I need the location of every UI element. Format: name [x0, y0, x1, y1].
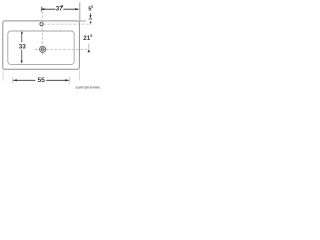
drain centerline right dashed: [46, 48, 90, 50]
dimension 5.3 upper arrow: [89, 15, 91, 18]
dimension 5.3 lower arrow: [90, 22, 92, 25]
extension of rear edge to right: [79, 20, 86, 22]
inner bowl outline: [8, 31, 74, 64]
drain centerline left dash: [35, 48, 38, 50]
svg-text:3: 3: [91, 5, 93, 9]
dimension 21.5 line: [88, 44, 90, 49]
svg-text:33: 33: [19, 44, 27, 51]
tap hole centerline vertical dashed: [41, 7, 43, 46]
dimension 37.5 right arrow: [75, 8, 79, 10]
extension line right edge up: [79, 2, 81, 21]
drain crosshair horizontal: [40, 48, 46, 50]
dimension 33 line lower: [21, 50, 23, 61]
dimension 55 right arrow: [65, 79, 69, 81]
extension line 55 left: [12, 77, 14, 83]
extension line basin right corner: [78, 70, 80, 80]
svg-text:sanitairwinkel: sanitairwinkel: [76, 85, 101, 89]
dimension 5.3 stem: [89, 13, 91, 15]
dimension 33 upper arrow: [21, 31, 23, 33]
svg-text:5: 5: [90, 34, 92, 38]
svg-text:55: 55: [38, 77, 46, 84]
dimension 5.3 label: [88, 5, 93, 12]
dimension 37.5 left arrow: [41, 8, 45, 10]
drain centerline bottom tick: [42, 53, 44, 55]
dimension 55 left arrow: [13, 79, 17, 81]
dimension 37.5 label: [56, 5, 64, 13]
drain inner circle: [41, 48, 44, 51]
dimension 33 lower arrow: [21, 61, 23, 64]
tap hole: [40, 23, 43, 26]
dimension 37.5 line: [42, 8, 79, 10]
tap hole centerline horizontal dashed: [43, 23, 92, 25]
dimension 5.3 reference tick: [89, 18, 92, 20]
dimension 33 line upper: [21, 33, 23, 42]
extension line 55 right: [68, 77, 70, 84]
washbasin outer outline: [3, 21, 80, 69]
dimension 21.5 label: [83, 34, 92, 42]
extension tick at tap centerline: [40, 7, 42, 12]
dimension 55 line: [13, 79, 69, 81]
drain crosshair vertical: [42, 47, 44, 53]
extension line basin left corner: [2, 70, 4, 80]
svg-text:5: 5: [61, 5, 63, 9]
dimension 21.5 arrow: [87, 49, 90, 52]
drain outer circle: [40, 46, 46, 52]
